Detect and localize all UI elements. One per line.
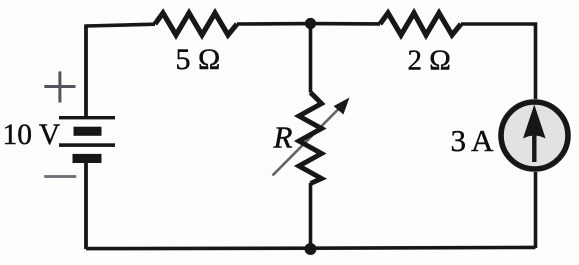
wire top-left segment bbox=[86, 24, 155, 26]
node junction bottom bbox=[305, 243, 317, 255]
wire right lower bbox=[534, 172, 538, 248]
wire left upper bbox=[84, 24, 88, 117]
battery V1 bottom thick plate bbox=[73, 154, 102, 163]
wire middle upper stub bbox=[309, 24, 313, 93]
battery V1 lower thin plate bbox=[59, 143, 115, 147]
wire bottom bbox=[86, 247, 536, 248]
node junction top bbox=[305, 18, 316, 29]
current source arrow shaft bbox=[532, 133, 536, 162]
resistor R (5 ohm) zigzag bbox=[155, 13, 237, 35]
svg-text:2 Ω: 2 Ω bbox=[408, 45, 451, 77]
svg-text:R: R bbox=[273, 120, 293, 155]
wire top-middle segment bbox=[237, 22, 380, 26]
current source I1 circle bbox=[501, 102, 568, 169]
variable resistor arrowhead bbox=[334, 98, 350, 115]
minus polarity sign bbox=[44, 175, 76, 178]
svg-text:3 A: 3 A bbox=[451, 123, 495, 158]
wire left lower bbox=[84, 163, 88, 249]
battery V1 top thin plate bbox=[59, 116, 115, 119]
current source arrowhead bbox=[523, 105, 546, 139]
svg-text:10 V: 10 V bbox=[3, 119, 61, 151]
resistor (2 ohm) zigzag bbox=[380, 13, 461, 35]
wire top-right segment bbox=[461, 24, 536, 99]
variable resistor arrow shaft bbox=[273, 107, 342, 176]
plus polarity sign bbox=[44, 71, 75, 102]
wire middle lower stub bbox=[309, 183, 313, 249]
variable resistor R vertical zigzag bbox=[299, 93, 322, 184]
battery V1 upper thick plate bbox=[74, 127, 102, 136]
svg-text:5 Ω: 5 Ω bbox=[176, 43, 221, 76]
